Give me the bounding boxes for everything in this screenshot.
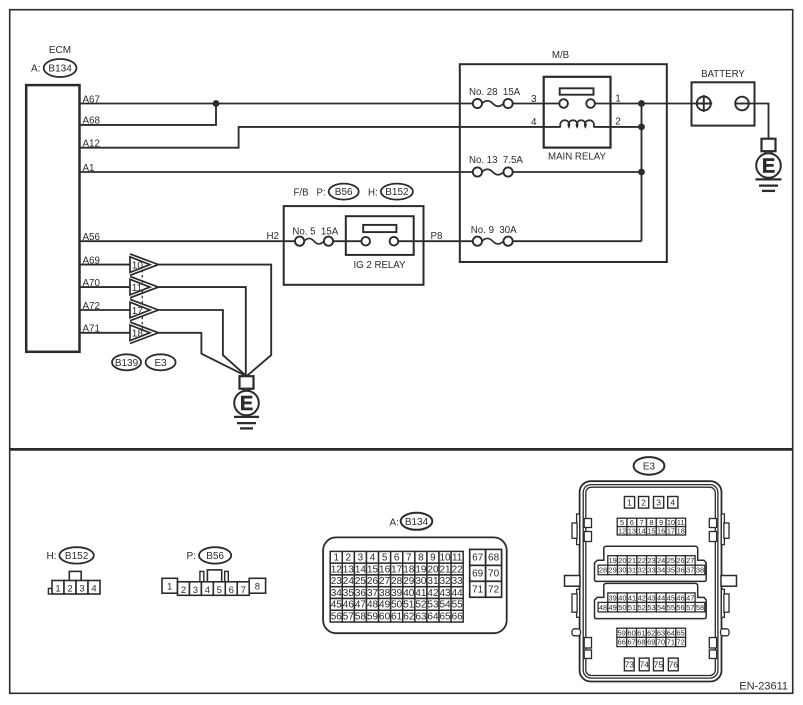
svg-text:E3: E3 <box>154 358 167 369</box>
svg-text:13: 13 <box>343 564 355 575</box>
svg-text:29: 29 <box>609 566 617 575</box>
svg-text:56: 56 <box>331 611 343 622</box>
svg-text:28: 28 <box>599 566 607 575</box>
E3 pins 73-76 <box>624 658 678 671</box>
IG2 relay contact terminals <box>361 237 398 246</box>
svg-text:7: 7 <box>406 552 412 563</box>
svg-text:69: 69 <box>647 638 655 647</box>
svg-text:35: 35 <box>343 588 355 599</box>
svg-text:38: 38 <box>379 588 391 599</box>
svg-text:40: 40 <box>618 593 626 602</box>
wire relay pin2 to trunk <box>594 126 642 128</box>
svg-text:27: 27 <box>686 556 694 565</box>
svg-text:E: E <box>762 156 775 178</box>
wire stub A71 <box>80 332 131 334</box>
connector A: B134 (ECM) <box>31 59 76 77</box>
joint connector pin 18 <box>130 322 158 343</box>
svg-text:17: 17 <box>391 564 403 575</box>
svg-text:23: 23 <box>647 556 655 565</box>
junction node pin2 <box>638 124 645 131</box>
wire IG2 relay to fuse No.9 (node P8) <box>398 240 473 242</box>
svg-text:11: 11 <box>452 552 463 563</box>
svg-text:23: 23 <box>331 576 343 587</box>
svg-text:No. 9 30A: No. 9 30A <box>471 225 517 236</box>
svg-text:66: 66 <box>452 611 464 622</box>
svg-text:3: 3 <box>656 497 661 507</box>
fuse No. 5 <box>295 237 333 246</box>
svg-text:8: 8 <box>418 552 424 563</box>
svg-text:25: 25 <box>355 576 367 587</box>
svg-text:34: 34 <box>331 588 343 599</box>
pin 3 <box>531 94 537 105</box>
svg-text:B134: B134 <box>405 517 429 528</box>
svg-text:25: 25 <box>667 556 675 565</box>
svg-text:P:: P: <box>187 551 196 562</box>
pin 4 <box>531 117 537 128</box>
svg-text:15: 15 <box>367 564 379 575</box>
svg-text:11: 11 <box>132 283 143 294</box>
svg-text:41: 41 <box>628 593 636 602</box>
svg-text:70: 70 <box>657 638 665 647</box>
svg-text:16: 16 <box>379 564 391 575</box>
wire pin17 to ground <box>158 310 246 376</box>
svg-text:B139: B139 <box>115 358 139 369</box>
svg-text:B56: B56 <box>206 551 224 562</box>
pin 2 <box>615 116 621 127</box>
wire fuse28 to relay pin 3 <box>513 103 560 105</box>
svg-text:63: 63 <box>657 628 665 637</box>
svg-text:61: 61 <box>637 628 645 637</box>
junction node pin1/battery <box>638 100 645 107</box>
wire pin11 to ground <box>158 287 245 376</box>
svg-text:3: 3 <box>531 94 537 105</box>
pin label A70 <box>83 278 101 289</box>
svg-text:B134: B134 <box>48 64 72 75</box>
svg-text:52: 52 <box>415 600 427 611</box>
svg-text:1: 1 <box>333 552 339 563</box>
junction node on A67 <box>213 100 220 107</box>
svg-text:29: 29 <box>403 576 415 587</box>
svg-text:60: 60 <box>379 611 391 622</box>
wire A67 to fuse No.28 <box>80 103 473 105</box>
E3 pin tray 19-38 <box>595 546 707 581</box>
svg-text:3: 3 <box>79 584 84 595</box>
connector A: B134 label <box>390 513 433 530</box>
svg-text:3: 3 <box>358 552 364 563</box>
svg-text:19: 19 <box>415 564 427 575</box>
pin label A68 <box>83 116 101 127</box>
connector H: B152 pin view <box>48 571 100 594</box>
svg-text:8: 8 <box>255 582 260 593</box>
connector E3 label <box>634 457 665 475</box>
svg-text:H:: H: <box>368 188 378 199</box>
E3 pins 1-4 <box>624 497 678 509</box>
svg-text:31: 31 <box>427 576 439 587</box>
wire A1 to fuse No.13 <box>80 171 473 173</box>
svg-text:6: 6 <box>394 552 400 563</box>
ground E (sensor grounds) <box>234 376 259 428</box>
svg-text:ECM: ECM <box>49 45 71 56</box>
ECM body B134 <box>26 85 79 352</box>
svg-text:58: 58 <box>696 603 704 612</box>
svg-text:44: 44 <box>452 588 464 599</box>
svg-text:12: 12 <box>618 526 626 535</box>
svg-text:4: 4 <box>531 117 537 128</box>
wire pin10 to ground <box>158 265 271 377</box>
svg-text:46: 46 <box>343 600 355 611</box>
wire stub A69 <box>80 264 131 266</box>
connector H: B152 <box>381 184 413 200</box>
fuse No. 28 15A label <box>469 87 521 98</box>
svg-text:B56: B56 <box>335 187 353 198</box>
MAIN RELAY box <box>544 77 611 148</box>
svg-text:33: 33 <box>452 576 464 587</box>
wire A12 to main relay coil pin 4 <box>80 127 561 148</box>
svg-text:62: 62 <box>647 628 655 637</box>
pin label A67 <box>83 94 100 105</box>
svg-text:No. 13 7.5A: No. 13 7.5A <box>469 155 523 166</box>
MAIN RELAY caption <box>548 152 606 163</box>
wire fuse13 to trunk <box>513 171 642 173</box>
svg-text:53: 53 <box>647 603 655 612</box>
svg-text:20: 20 <box>427 564 439 575</box>
svg-text:58: 58 <box>355 611 367 622</box>
svg-text:51: 51 <box>403 600 415 611</box>
svg-text:12: 12 <box>331 564 343 575</box>
wire pin18 to ground <box>158 333 246 376</box>
svg-text:BATTERY: BATTERY <box>701 69 745 80</box>
svg-text:IG 2 RELAY: IG 2 RELAY <box>353 260 406 271</box>
wire relay pin1 to battery <box>595 103 697 105</box>
svg-text:74: 74 <box>639 660 649 670</box>
fuse No. 28 <box>473 99 513 108</box>
connector H: B152 label <box>47 547 94 563</box>
pin label A71 <box>83 324 100 335</box>
svg-text:45: 45 <box>667 593 675 602</box>
connector A: B134 pin view <box>323 537 507 633</box>
pin label A12 <box>83 139 100 150</box>
svg-text:35: 35 <box>667 566 675 575</box>
svg-text:24: 24 <box>343 576 355 587</box>
joint connector pin 10 <box>130 254 158 275</box>
svg-text:57: 57 <box>343 611 355 622</box>
svg-text:6: 6 <box>229 585 234 596</box>
svg-text:59: 59 <box>618 628 626 637</box>
joint connector pin 11 <box>130 276 158 297</box>
svg-text:32: 32 <box>439 576 451 587</box>
IG 2 RELAY caption <box>353 260 406 271</box>
fuse No. 9 30A label <box>471 225 517 236</box>
svg-text:48: 48 <box>367 600 379 611</box>
connector P: B56 <box>329 184 359 200</box>
svg-text:4: 4 <box>670 497 675 507</box>
svg-text:67: 67 <box>627 638 635 647</box>
svg-text:76: 76 <box>669 660 679 670</box>
M/B fuse box <box>460 64 667 262</box>
svg-text:41: 41 <box>415 588 427 599</box>
svg-text:4: 4 <box>370 552 376 563</box>
connector E3 (oval) <box>146 354 176 370</box>
E3 pins 59-72 <box>617 628 686 646</box>
svg-text:46: 46 <box>676 593 684 602</box>
fuse No. 9 <box>473 237 513 246</box>
wire fuse5 to IG2 relay contact <box>333 240 361 242</box>
svg-text:54: 54 <box>657 603 665 612</box>
junction node fuse13 <box>638 169 645 176</box>
svg-text:A:: A: <box>31 64 40 75</box>
svg-text:59: 59 <box>367 611 379 622</box>
svg-text:33: 33 <box>647 566 655 575</box>
svg-text:64: 64 <box>427 611 439 622</box>
svg-text:51: 51 <box>628 603 636 612</box>
svg-text:P8: P8 <box>431 231 444 242</box>
svg-text:75: 75 <box>654 660 664 670</box>
svg-text:73: 73 <box>625 660 635 670</box>
svg-text:36: 36 <box>676 566 684 575</box>
pin label A69 <box>83 255 100 266</box>
E3 pin tray 39-58 <box>595 583 707 618</box>
svg-text:14: 14 <box>355 564 367 575</box>
svg-text:53: 53 <box>427 600 439 611</box>
svg-text:65: 65 <box>677 628 685 637</box>
svg-text:52: 52 <box>638 603 646 612</box>
svg-text:26: 26 <box>367 576 379 587</box>
svg-text:63: 63 <box>415 611 427 622</box>
svg-text:68: 68 <box>488 553 500 564</box>
svg-text:57: 57 <box>686 603 694 612</box>
svg-text:20: 20 <box>618 556 626 565</box>
F/B label row <box>294 188 326 199</box>
fuse No. 5 15A label <box>292 227 338 238</box>
E3 pins 5-18 <box>617 518 685 535</box>
svg-text:30: 30 <box>618 566 626 575</box>
svg-text:3: 3 <box>193 585 198 596</box>
svg-text:P:: P: <box>317 188 326 199</box>
svg-text:A:: A: <box>390 518 399 529</box>
pin label A1 <box>83 163 95 174</box>
svg-text:14: 14 <box>638 526 646 535</box>
svg-text:2: 2 <box>67 584 72 595</box>
svg-text:15: 15 <box>647 526 655 535</box>
connector P: B56 label <box>187 547 232 563</box>
svg-text:18: 18 <box>132 329 144 340</box>
svg-text:54: 54 <box>439 600 451 611</box>
wire A68 riser joining A67 <box>80 104 217 125</box>
connector E3 housing <box>565 481 737 681</box>
svg-text:44: 44 <box>657 593 665 602</box>
svg-text:50: 50 <box>618 603 626 612</box>
F/B fuse box <box>284 206 424 285</box>
svg-text:F/B: F/B <box>294 188 309 199</box>
ECM label <box>49 45 71 56</box>
svg-text:27: 27 <box>379 576 391 587</box>
svg-text:H:: H: <box>47 551 57 562</box>
connector B139 <box>112 354 141 370</box>
svg-text:69: 69 <box>472 569 484 580</box>
svg-text:60: 60 <box>627 628 635 637</box>
svg-text:62: 62 <box>403 611 415 622</box>
svg-text:64: 64 <box>667 628 675 637</box>
fuse No. 13 7.5A label <box>469 155 523 166</box>
svg-text:9: 9 <box>430 552 436 563</box>
svg-text:38: 38 <box>696 566 704 575</box>
svg-text:43: 43 <box>439 588 451 599</box>
svg-text:17: 17 <box>132 306 144 317</box>
svg-text:B152: B152 <box>385 187 409 198</box>
svg-text:4: 4 <box>91 584 96 595</box>
svg-text:49: 49 <box>609 603 617 612</box>
svg-text:36: 36 <box>355 588 367 599</box>
node H2 <box>266 231 279 242</box>
wire battery minus to ground <box>749 104 769 139</box>
svg-text:19: 19 <box>609 556 617 565</box>
wire stub A72 <box>80 309 131 311</box>
section divider <box>11 448 793 451</box>
figure number EN-23611 <box>739 681 788 693</box>
svg-text:37: 37 <box>367 588 379 599</box>
svg-text:70: 70 <box>488 569 500 580</box>
pin label A56 <box>83 232 101 243</box>
svg-text:21: 21 <box>439 564 451 575</box>
IG2 relay contact bar <box>363 225 396 232</box>
node P8 <box>431 231 444 242</box>
svg-text:E: E <box>240 393 253 415</box>
svg-text:2: 2 <box>615 116 621 127</box>
svg-text:2: 2 <box>181 585 186 596</box>
svg-text:5: 5 <box>217 585 222 596</box>
svg-text:18: 18 <box>403 564 415 575</box>
connector P: B56 pin view <box>162 570 266 596</box>
wire stub A70 <box>80 286 131 288</box>
trunk wire to battery <box>641 104 643 242</box>
svg-text:1: 1 <box>55 584 60 595</box>
joint connector pin 17 <box>130 299 158 320</box>
svg-text:B152: B152 <box>65 551 89 562</box>
svg-text:H2: H2 <box>266 231 279 242</box>
IG 2 RELAY box <box>346 216 414 255</box>
svg-text:13: 13 <box>628 526 636 535</box>
svg-text:18: 18 <box>677 526 685 535</box>
svg-text:50: 50 <box>391 600 403 611</box>
svg-text:47: 47 <box>686 593 694 602</box>
svg-text:42: 42 <box>638 593 646 602</box>
pin label A72 <box>83 301 100 312</box>
svg-text:42: 42 <box>427 588 439 599</box>
svg-text:MAIN RELAY: MAIN RELAY <box>548 152 606 163</box>
wire A56 to fuse No.5 (node H2) <box>80 240 296 242</box>
svg-text:31: 31 <box>628 566 636 575</box>
svg-text:55: 55 <box>667 603 675 612</box>
svg-text:40: 40 <box>403 588 415 599</box>
svg-text:28: 28 <box>391 576 403 587</box>
pin 1 <box>615 94 621 105</box>
svg-text:2: 2 <box>641 497 646 507</box>
svg-text:16: 16 <box>657 526 665 535</box>
svg-text:10: 10 <box>132 260 144 271</box>
svg-text:66: 66 <box>618 638 626 647</box>
BATTERY label <box>701 69 745 80</box>
svg-text:72: 72 <box>488 584 500 595</box>
svg-text:10: 10 <box>439 552 451 563</box>
svg-text:7: 7 <box>241 585 246 596</box>
svg-text:34: 34 <box>657 566 665 575</box>
svg-text:E3: E3 <box>643 461 656 472</box>
dashed link between joint connector symbols <box>141 265 143 333</box>
svg-text:48: 48 <box>599 603 607 612</box>
svg-text:65: 65 <box>439 611 451 622</box>
svg-text:M/B: M/B <box>552 50 569 61</box>
svg-text:1: 1 <box>167 582 172 593</box>
battery <box>692 82 755 125</box>
svg-text:24: 24 <box>657 556 665 565</box>
svg-text:67: 67 <box>472 553 484 564</box>
svg-text:22: 22 <box>638 556 646 565</box>
svg-text:2: 2 <box>346 552 352 563</box>
svg-text:56: 56 <box>676 603 684 612</box>
main relay coil <box>560 120 594 127</box>
main relay contact terminals <box>559 99 595 108</box>
svg-text:32: 32 <box>638 566 646 575</box>
svg-text:4: 4 <box>205 585 210 596</box>
svg-text:22: 22 <box>452 564 464 575</box>
svg-text:45: 45 <box>331 600 343 611</box>
svg-text:61: 61 <box>391 611 403 622</box>
M/B label <box>552 50 569 61</box>
fuse No. 13 <box>473 167 513 176</box>
svg-text:71: 71 <box>667 638 675 647</box>
svg-text:68: 68 <box>637 638 645 647</box>
svg-text:26: 26 <box>676 556 684 565</box>
main relay contact bar <box>560 88 594 94</box>
svg-text:43: 43 <box>647 593 655 602</box>
svg-text:71: 71 <box>472 584 484 595</box>
svg-text:No. 28 15A: No. 28 15A <box>469 87 521 98</box>
svg-text:1: 1 <box>627 497 632 507</box>
svg-text:55: 55 <box>452 600 464 611</box>
svg-text:72: 72 <box>677 638 685 647</box>
svg-text:17: 17 <box>667 526 675 535</box>
wire fuse9 to trunk <box>513 240 642 242</box>
svg-text:39: 39 <box>391 588 403 599</box>
svg-text:39: 39 <box>609 593 617 602</box>
svg-text:49: 49 <box>379 600 391 611</box>
svg-text:47: 47 <box>355 600 367 611</box>
ground E (battery) <box>756 139 782 191</box>
svg-text:21: 21 <box>628 556 636 565</box>
svg-text:EN-23611: EN-23611 <box>739 681 788 693</box>
svg-text:5: 5 <box>382 552 388 563</box>
svg-text:30: 30 <box>415 576 427 587</box>
svg-text:37: 37 <box>686 566 694 575</box>
